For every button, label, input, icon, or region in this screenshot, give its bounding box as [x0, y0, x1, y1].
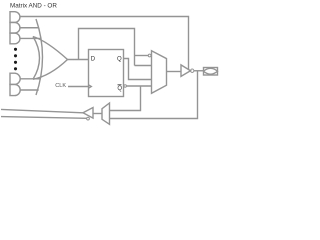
- svg-text:D: D: [91, 56, 96, 62]
- svg-text:Q: Q: [117, 86, 122, 92]
- svg-text:CLK: CLK: [55, 83, 66, 89]
- svg-text:Matrix AND - OR: Matrix AND - OR: [10, 3, 57, 10]
- svg-text:Q: Q: [117, 56, 122, 62]
